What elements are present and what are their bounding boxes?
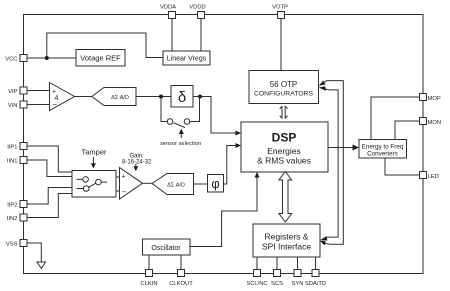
svg-text:δ: δ [178,89,186,106]
svg-text:CONFIGURATORS: CONFIGURATORS [254,91,314,98]
svg-text:SPI Interface: SPI Interface [262,242,311,252]
svg-text:VIN: VIN [8,103,18,109]
pin SCS [271,270,283,288]
switch sensor selection contact right [184,119,190,125]
svg-text:Energies: Energies [267,146,301,156]
ADC current channel delta-sigma A/D [152,174,194,195]
op-amp U2 current PGA [120,168,143,200]
box Energy to Freq Converters [359,140,407,159]
svg-text:VIP: VIP [8,89,17,95]
arrowhead current channel into DSP [236,143,242,148]
arrowhead into Energy to Freq [353,145,360,151]
wire Oscillator to DSP [190,176,257,247]
pin CLKOUT [169,270,193,288]
wire CLKOUT to oscillator [180,255,182,270]
wire current channel into DSP [224,146,238,185]
wire VOTP down to OTP block [280,19,282,71]
ADC voltage channel delta-sigma A/D [92,88,136,106]
wire tamper to gain amp minus [116,190,120,192]
svg-text:Votage REF: Votage REF [80,54,121,63]
wire CLKIN to oscillator [148,255,150,270]
svg-text:SDA/TD: SDA/TD [305,281,326,287]
box DSP [241,122,328,172]
svg-text:IIN2: IIN2 [7,216,18,222]
svg-text:+: + [122,174,126,181]
wire IIP2 to tamper block [27,188,72,205]
wire VDDA down to Linear Vregs [171,19,173,52]
wire voltage channel into DSP [200,97,237,134]
pin SDA/TD [305,270,326,288]
wire DSP to Energy to Freq [328,147,354,149]
box tamper current selector [72,171,116,198]
svg-text:SCS: SCS [271,281,283,287]
svg-text:IIN1: IIN1 [7,159,18,165]
box phi phase compensation [208,175,224,193]
wire MON from converter [395,121,420,140]
svg-text:Oscillator: Oscillator [151,245,181,252]
arrow double link OTP-DSP [280,106,288,119]
pin VDDD [189,5,205,19]
pin VDDA [160,5,176,19]
box Oscillator [143,239,191,255]
arrowhead outer into OTP [319,81,326,86]
svg-text:VCC: VCC [5,57,17,63]
wire tamper to gain amp plus [116,176,120,178]
pin SCL/NC [246,270,267,288]
svg-text:& RMS values: & RMS values [257,156,311,166]
box Linear Vregs [163,51,210,65]
svg-text:CLKOUT: CLKOUT [169,281,193,287]
wire VSS to ground [27,243,41,262]
pin SYN [292,270,304,288]
svg-text:8-16-24-32: 8-16-24-32 [122,160,152,166]
svg-text:SCL/NC: SCL/NC [246,281,267,287]
op-amp U1 voltage preamp gain 4 [50,83,75,111]
arrowhead inner into Registers [320,236,328,240]
svg-text:LED: LED [428,174,439,180]
svg-text:Converters: Converters [367,151,398,158]
svg-text:VDDA: VDDA [160,5,176,11]
wire PGA out to current ADC [143,182,153,184]
wire OTP-Registers link inner [323,89,339,239]
wire VCC to Votage REF [27,57,76,59]
svg-text:MON: MON [428,120,442,126]
wire ADC to delta box [136,96,171,98]
wire sensor bypass right leg [190,97,200,122]
wire VDDD down to Linear Vregs [200,19,202,52]
arrow big double DSP-Registers [279,172,292,223]
arrow sensor selection pointer [180,133,182,138]
svg-text:Linear Vregs: Linear Vregs [167,56,207,63]
pin CLKIN [140,270,157,288]
wire Registers to SCS pin [276,257,278,270]
node before delta [159,95,163,99]
arrowhead oscillator into DSP [255,172,260,178]
node after delta [198,95,202,99]
arrowhead voltage channel into DSP [236,131,242,136]
svg-text:IIP2: IIP2 [7,203,17,209]
svg-text:VOTP: VOTP [272,5,288,11]
wire MOP from converter [371,97,420,140]
wire delta box output [193,96,200,98]
svg-text:CLKIN: CLKIN [140,281,157,287]
chip outline border [24,15,424,274]
wire LED from converter [385,158,420,175]
svg-text:MOP: MOP [428,96,441,102]
pin IIP1 [7,143,27,151]
arrowhead outer into Registers [320,241,326,246]
svg-text:56 OTP: 56 OTP [270,80,298,89]
switch sensor selection blade (open) [174,123,186,128]
svg-text:φ: φ [211,176,219,191]
svg-text:VSS: VSS [6,242,18,248]
arrow tamper pointer [92,157,94,164]
wire OTP-Registers link outer [323,81,344,245]
svg-text:Registers &: Registers & [265,232,309,242]
svg-text:ΔΣ A/D: ΔΣ A/D [167,183,185,189]
svg-text:sensor selection: sensor selection [160,141,201,147]
svg-text:ΔΣ A/D: ΔΣ A/D [111,95,129,101]
svg-text:−: − [122,188,127,197]
arrow gain pointer [135,164,137,167]
pin IIN1 [7,157,27,165]
wire Registers to SYN pin [297,257,299,270]
box delta filter [171,86,193,108]
svg-text:IIP1: IIP1 [7,145,17,151]
pin VIN [8,101,27,109]
wire ADC to phi box [194,183,208,185]
wire op-amp output to voltage ADC [75,96,92,98]
box Registers and SPI Interface [253,224,320,257]
wire Registers to SCL pin [256,257,258,270]
wire VCC branch to Linear Vregs [47,33,163,58]
pin IIP2 [7,201,27,209]
wire IIP1 to tamper block [27,146,72,172]
arrowhead inner into OTP [319,86,326,91]
svg-text:SYN: SYN [292,281,304,287]
pin VCC [5,55,27,63]
wire VIN to op-amp [27,104,50,106]
pin MON [420,118,442,127]
ground [37,262,46,269]
wire sensor bypass left leg [161,97,167,122]
pin MOP [420,94,441,103]
pin LED [420,172,439,181]
switch sensor selection contact left [167,119,173,125]
svg-text:Energy to Freq: Energy to Freq [362,144,404,151]
wire Registers to SDA pin [315,257,317,270]
wire IIN1 to tamper block [27,160,72,177]
node VCC junction [45,56,49,60]
box Votage REF [76,50,125,67]
wire VIP to op-amp [27,90,50,92]
svg-text:VDDD: VDDD [189,5,205,11]
svg-text:DSP: DSP [272,131,297,145]
pin VIP [8,87,27,95]
pin VSS [6,240,27,248]
svg-text:Tamper: Tamper [81,148,107,157]
box 56 OTP CONFIGURATORS [249,71,319,104]
pin IIN2 [7,214,27,222]
wire IIN2 to tamper block [27,194,72,218]
pin VOTP [272,5,288,19]
svg-text:−: − [53,100,58,109]
